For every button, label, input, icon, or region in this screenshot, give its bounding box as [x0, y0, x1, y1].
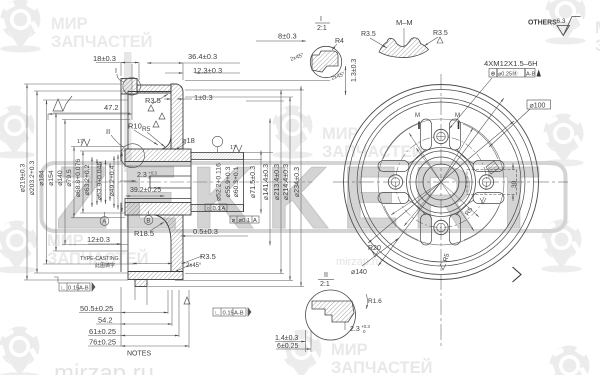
svg-text:A: A [102, 220, 106, 226]
dia18 leader [175, 143, 186, 150]
FCF position frame [489, 69, 535, 78]
drum rim circle 4 [361, 102, 521, 262]
R3.5 right label/leader [433, 30, 448, 37]
triangle datum flag left [92, 283, 95, 291]
svg-text:⌀234±0.3: ⌀234±0.3 [292, 167, 301, 197]
svg-text:⌀0.25Ⓜ: ⌀0.25Ⓜ [498, 70, 518, 78]
svg-text:R3.5: R3.5 [361, 31, 376, 38]
2x45 label lower [331, 71, 346, 81]
svg-text:8±0.3: 8±0.3 [278, 32, 297, 41]
detail II magnified circle [306, 290, 356, 340]
svg-text:⌀140: ⌀140 [57, 170, 64, 186]
R4 label and leader [335, 38, 344, 45]
watermark pin bottom-center [280, 330, 322, 375]
watermark pin mid-left edge [0, 106, 35, 159]
1.4±0.3 dim [275, 335, 298, 342]
svg-text:R3.5: R3.5 [145, 96, 161, 105]
svg-text:R18.5: R18.5 [134, 229, 154, 238]
roughness mark 17 left [81, 139, 90, 146]
hub boss strip top [191, 153, 244, 160]
bolt hole W [388, 175, 402, 189]
svg-text:⌀49.2+0.4: ⌀49.2+0.4 [109, 165, 116, 196]
bolt hole N [434, 129, 448, 143]
datum circle B [144, 216, 153, 225]
detail I magnified circle [310, 46, 341, 77]
drum back wall top section [171, 84, 183, 149]
svg-text:R20: R20 [368, 245, 381, 252]
svg-text:1.4±0.3: 1.4±0.3 [275, 335, 298, 342]
18±0.3 dim [96, 62, 121, 64]
drum top rim wall section [137, 85, 171, 93]
hub circles [407, 148, 476, 217]
svg-text:R3.5: R3.5 [433, 30, 448, 37]
svg-text:1.3±0.3: 1.3±0.3 [351, 59, 358, 82]
M-M profile hatched [379, 38, 429, 58]
svg-text:M–M: M–M [396, 18, 413, 27]
roughness mark top-left [53, 96, 72, 111]
svg-text:2.3: 2.3 [137, 172, 147, 179]
bottom depth dims [120, 287, 122, 346]
svg-text:TYPE-CASTING: TYPE-CASTING [80, 256, 119, 262]
39.2 dim [126, 195, 165, 197]
watermark pin mid-top-center (faint) [271, 106, 313, 159]
svg-text:54.2: 54.2 [98, 316, 113, 325]
svg-text:M: M [455, 113, 460, 119]
svg-text:⌀140: ⌀140 [351, 269, 367, 276]
watermark pin bottom-left [0, 327, 40, 375]
rotated diameter labels left column [20, 159, 117, 201]
svg-text:⌀68.8+0.076: ⌀68.8+0.076 [75, 159, 82, 198]
watermark pin left-middle [0, 221, 37, 274]
drum rim circle 3 [357, 98, 525, 266]
wall-to-flange fillet R10/R5 [162, 135, 171, 149]
R1.6 label [368, 298, 382, 305]
bolt hole S [434, 220, 448, 234]
svg-text:⌀0.1: ⌀0.1 [239, 218, 251, 224]
watermark pin bottom-right [548, 346, 590, 375]
svg-text:⌀219±0.3: ⌀219±0.3 [20, 163, 27, 192]
FCF leader stub [54, 277, 58, 283]
svg-text:МИР: МИР [331, 341, 368, 359]
M-M label [396, 18, 413, 27]
svg-text:30: 30 [511, 180, 518, 188]
opening face line top [120, 94, 122, 161]
R10 leader [134, 130, 158, 145]
hub boss strip bottom [191, 205, 244, 212]
R18.5 leader [150, 222, 164, 231]
svg-text:⌀53.9+0.046: ⌀53.9+0.046 [97, 162, 104, 201]
svg-text:⌀18: ⌀18 [182, 136, 195, 145]
svg-text:76±0.25: 76±0.25 [89, 338, 116, 347]
8±0.3 dim [278, 32, 297, 41]
bore dim lines [91, 157, 93, 207]
svg-text:⌀184: ⌀184 [39, 170, 46, 186]
svg-text:61±0.25: 61±0.25 [89, 327, 116, 336]
svg-text:⌀203.2+0.3: ⌀203.2+0.3 [29, 161, 36, 196]
svg-text:○: ○ [207, 206, 211, 212]
detail I label text [317, 16, 327, 32]
svg-text:⌀60.3+0.1: ⌀60.3+0.1 [233, 166, 240, 197]
svg-text:ЗАПЧАСТЕЙ: ЗАПЧАСТЕЙ [595, 36, 600, 55]
2.3 dim small [120, 180, 136, 182]
svg-text:2:1: 2:1 [317, 25, 327, 32]
svg-text:mirzap.ru: mirzap.ru [54, 360, 154, 375]
svg-text:B: B [146, 219, 150, 225]
centerline axis [55, 181, 312, 183]
R5 label lower [442, 252, 451, 262]
surface finish marks [53, 96, 251, 316]
svg-text:12±0.3: 12±0.3 [87, 235, 110, 244]
watermark pin top-right [544, 0, 586, 44]
long diagonal dimension lines [378, 98, 504, 266]
svg-text:39.2±0.25: 39.2±0.25 [130, 187, 161, 194]
bolt circle dashdot [396, 137, 487, 228]
svg-text:⌀154: ⌀154 [48, 170, 55, 186]
svg-text:47.2: 47.2 [104, 103, 119, 112]
hub bottom band section [125, 203, 191, 216]
roughness marks wall [148, 105, 154, 111]
4XM12X1.5-6H label [484, 59, 538, 68]
0.5±0.3 leader [181, 235, 192, 237]
2x45 leader bottom [174, 264, 192, 272]
FCF 0.1 A small lower [230, 216, 259, 223]
svg-text:0.15: 0.15 [68, 286, 79, 292]
svg-text:МИР: МИР [51, 15, 88, 33]
triangle datum flag mid [248, 308, 251, 316]
svg-text:2x45°: 2x45° [331, 71, 346, 81]
right column diameter dim lines [269, 119, 271, 246]
svg-text:R10: R10 [128, 122, 142, 131]
hatched key detail at E hole [486, 161, 499, 174]
svg-text:∟: ∟ [61, 286, 67, 292]
svg-text:R4: R4 [335, 38, 344, 45]
leader from M12 label to top bolt hole [449, 78, 492, 129]
svg-text:OTHERS: OTHERS [528, 20, 557, 27]
svg-text:50.5±0.25: 50.5±0.25 [80, 304, 113, 313]
svg-text:2:1: 2:1 [320, 281, 330, 288]
detail II step section [312, 301, 354, 322]
svg-text:A-B: A-B [79, 286, 89, 292]
machining chevron mark [513, 267, 522, 282]
30 dim [511, 180, 518, 188]
svg-text:2.3: 2.3 [350, 326, 360, 333]
svg-text:0.15: 0.15 [223, 311, 234, 317]
svg-text:36.4±0.3: 36.4±0.3 [188, 52, 217, 61]
svg-text:⌀141.4±0.3: ⌀141.4±0.3 [261, 164, 270, 200]
svg-text:⌀213.4±0.3: ⌀213.4±0.3 [272, 164, 281, 200]
FCF runout 0.15 A-B mid [213, 308, 246, 316]
bore step lines [125, 165, 191, 167]
balance symbol circle [212, 136, 222, 146]
svg-text:⌀79.5: ⌀79.5 [66, 169, 73, 187]
36.4±0.3 dim [147, 62, 183, 64]
svg-text:12.3±0.3: 12.3±0.3 [193, 66, 222, 75]
extension lines left [24, 83, 121, 85]
svg-text:mirzap.ru: mirzap.ru [336, 256, 382, 268]
svg-text:2x45°: 2x45° [290, 52, 305, 62]
svg-text:A: A [222, 206, 226, 212]
vertical centerline [440, 74, 442, 346]
6±0.25 dim [277, 343, 298, 350]
watermark pin top-left [0, 0, 41, 52]
roughness mark bottom rotated [184, 297, 190, 304]
R5 label right [464, 206, 475, 217]
svg-text:17: 17 [77, 139, 83, 145]
braking surface bottom [128, 271, 171, 273]
detail I label [115, 68, 117, 75]
svg-text:⌀63.2+0.2: ⌀63.2+0.2 [84, 164, 91, 195]
svg-text:⌀71.5±0.3: ⌀71.5±0.3 [248, 166, 257, 198]
watermark pin right-lower [540, 220, 582, 273]
svg-text:∟: ∟ [215, 311, 221, 317]
R20 label [368, 245, 381, 252]
svg-text:1±0.3: 1±0.3 [194, 93, 213, 102]
hub flange top band section [125, 149, 191, 162]
watermark gray strip vertical [124, 52, 132, 172]
FCF 0.1 A small upper [205, 204, 227, 211]
svg-text:⌀55.9+0.3: ⌀55.9+0.3 [225, 166, 232, 197]
ZEKKERT logo border [42, 163, 566, 231]
detail II indicator circle on flange [121, 144, 145, 168]
svg-text:此图铸字: 此图铸字 [95, 262, 115, 269]
watermark pin mid-right [542, 114, 584, 167]
FCF runout 0.15 A-B left [59, 283, 90, 291]
12±0.3 dim bottom [88, 243, 121, 245]
svg-text:⌀214.4±0.3: ⌀214.4±0.3 [281, 164, 290, 200]
roughness mark 17 right [233, 145, 242, 152]
detail I leader [117, 74, 124, 82]
svg-text:ЗАПЧАСТЕЙ: ЗАПЧАСТЕЙ [331, 358, 432, 375]
svg-text:0.1: 0.1 [213, 206, 221, 212]
drum rim circle 2 [349, 90, 534, 275]
svg-text:R1.6: R1.6 [368, 298, 382, 305]
svg-text:18±0.3: 18±0.3 [93, 54, 116, 63]
M-M cutting plane marks [419, 122, 459, 130]
svg-text:⌀52.2+0.116: ⌀52.2+0.116 [216, 163, 223, 201]
drum outer circle [344, 85, 539, 280]
svg-text:ЗАПЧАСТЕЙ: ЗАПЧАСТЕЙ [51, 32, 152, 51]
svg-text:R5: R5 [442, 252, 451, 262]
R3.5 left label/leader [361, 31, 376, 38]
drum bottom lip section [135, 280, 147, 287]
opening face line bottom [120, 203, 122, 272]
svg-text:⌀: ⌀ [232, 218, 236, 224]
svg-text:МИР: МИР [595, 19, 600, 37]
svg-text:I: I [115, 68, 117, 75]
svg-text:II: II [324, 272, 328, 279]
1±0.3 dim leader [164, 98, 171, 100]
detail I indicator circle on drum [123, 78, 141, 96]
2.3+0.3 dim [350, 324, 370, 334]
R3.5 leader top [152, 94, 168, 104]
svg-text:⌀100: ⌀100 [530, 103, 546, 110]
detail I lip section shape [312, 51, 338, 72]
rotated diameter labels right columns [216, 163, 302, 201]
bolt hole E [479, 175, 493, 189]
svg-text:0: 0 [363, 329, 366, 334]
roughness 6.3 symbol [557, 17, 581, 36]
drum top lip section [121, 79, 137, 95]
svg-text:R5: R5 [142, 126, 151, 133]
svg-text:NOTES: NOTES [127, 351, 151, 358]
12.3±0.3 dim [165, 72, 183, 74]
mouth depth dim line [133, 263, 173, 265]
R5 leader [147, 132, 165, 147]
svg-text:A-B: A-B [526, 72, 536, 78]
svg-text:A: A [253, 218, 257, 224]
svg-text:2x45°: 2x45° [186, 263, 202, 269]
svg-text:II: II [106, 127, 110, 136]
radial leader arrows [409, 133, 441, 182]
detail II label [320, 272, 330, 288]
drum bottom rim wall section [128, 272, 183, 280]
47.2 dim [48, 113, 132, 115]
dia140 label [351, 269, 367, 276]
R3.5 leader bottom [181, 256, 202, 264]
horizontal centerline [333, 181, 568, 183]
svg-text:A-B: A-B [234, 311, 244, 317]
extension lines right [185, 89, 304, 91]
braking surface top [128, 91, 171, 93]
back wall bottom with R18.5 curve [155, 215, 183, 272]
hidden outline dashed rect at E hole [467, 170, 517, 195]
svg-text:⊕: ⊕ [491, 72, 496, 78]
svg-text:R3.5: R3.5 [200, 252, 216, 261]
svg-text:6.3: 6.3 [557, 18, 566, 25]
spoke web arcs [383, 124, 499, 240]
dia 100 boxed label [527, 100, 551, 109]
flange X concave curves [408, 149, 474, 215]
svg-text:17: 17 [230, 145, 236, 151]
svg-text:M: M [415, 113, 420, 119]
flange pocket slots (8) [378, 119, 504, 245]
svg-text:I: I [320, 16, 322, 23]
svg-text:4XM12X1.5–6H: 4XM12X1.5–6H [484, 59, 538, 68]
2x45 label upper [290, 52, 305, 62]
M-M centerline [403, 28, 405, 48]
1.3±0.3 dim [351, 59, 358, 82]
svg-text:0.5±0.3: 0.5±0.3 [193, 227, 218, 236]
flange outline circle [378, 119, 504, 245]
left column diameter dim lines [26, 84, 28, 280]
datum circle A [100, 217, 109, 226]
